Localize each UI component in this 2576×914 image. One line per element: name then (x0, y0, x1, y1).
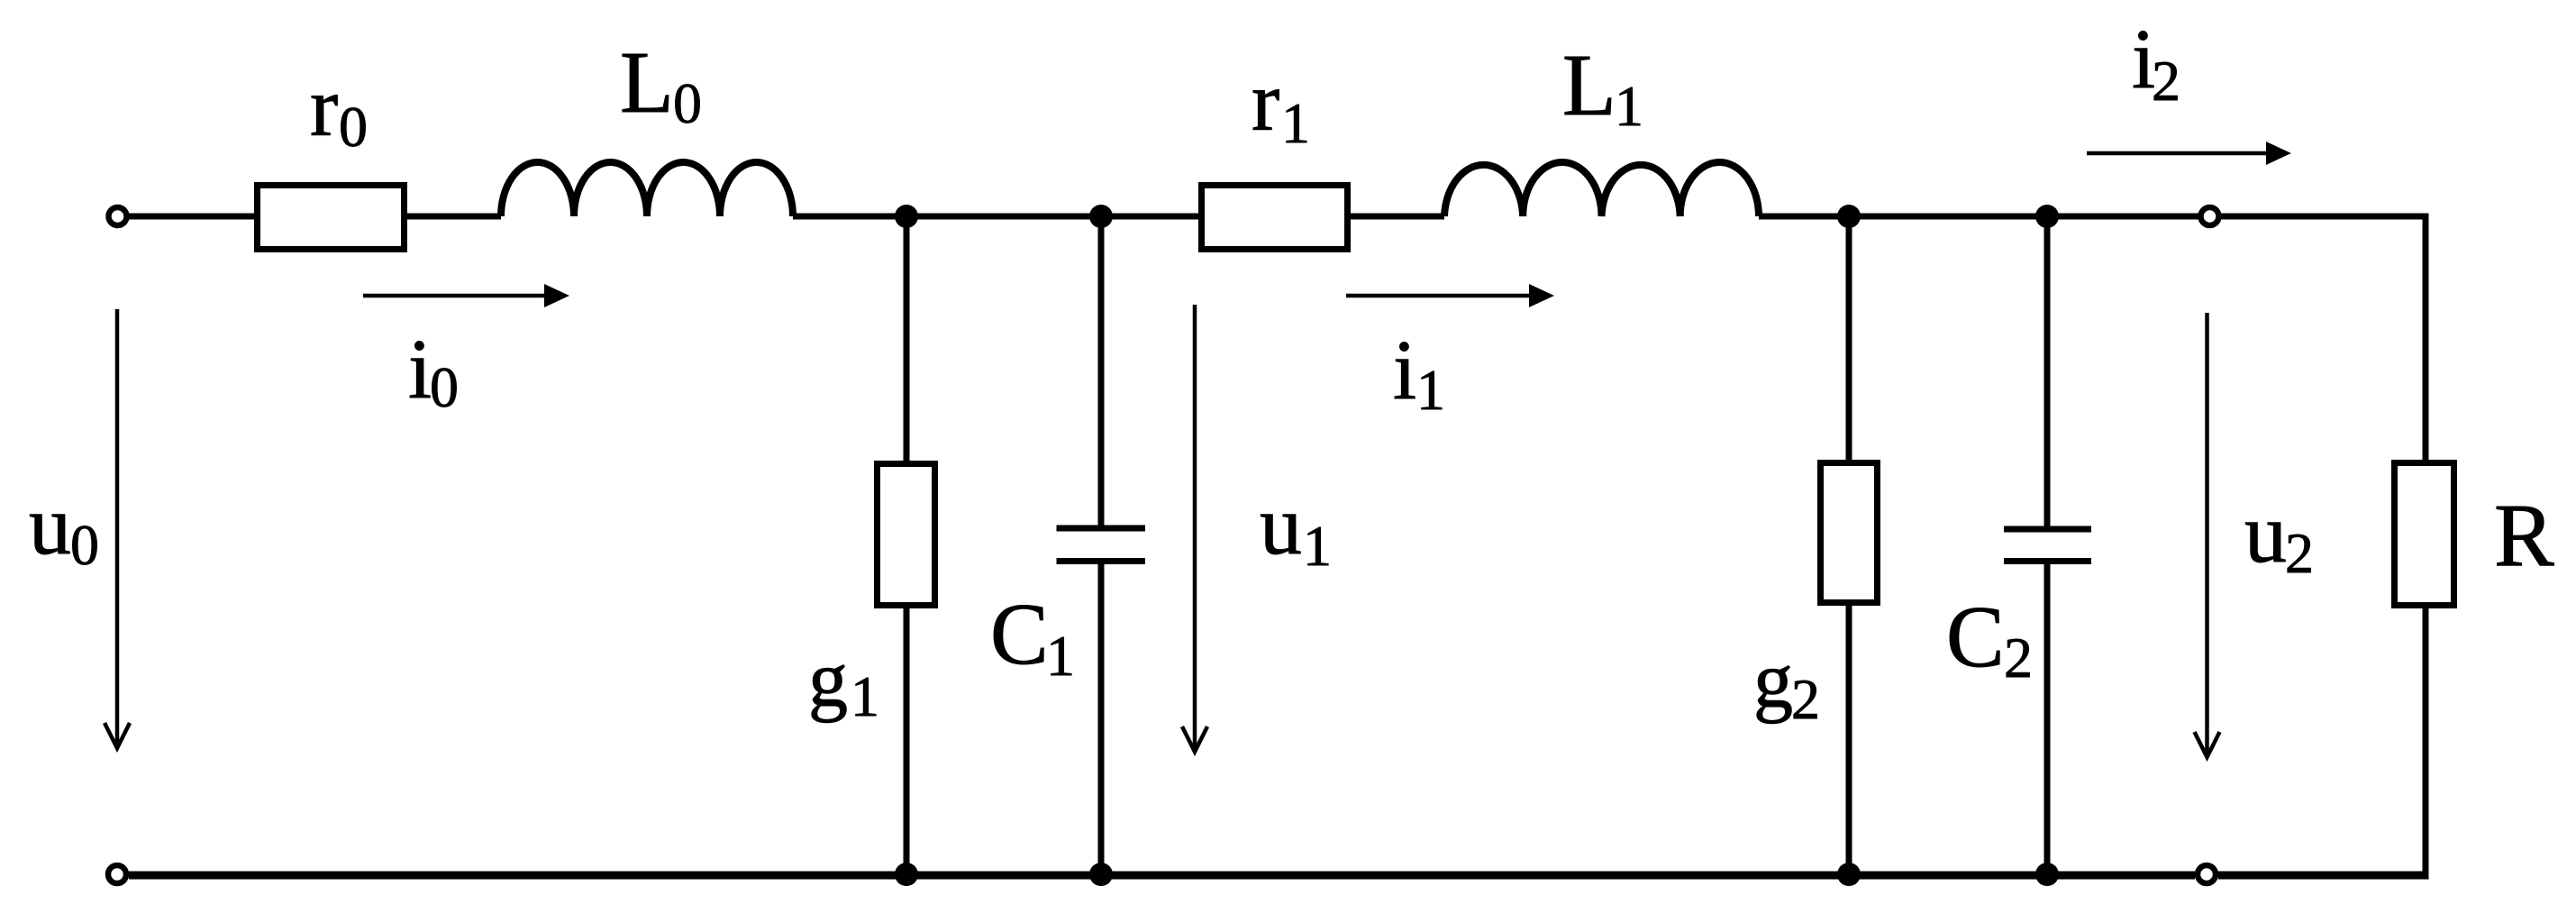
svg-text:0: 0 (339, 95, 368, 159)
capacitor C1 top plate (1057, 526, 1146, 532)
wire g1 branch upper (904, 216, 910, 463)
resistor g1 (878, 464, 935, 606)
wire g1 branch lower (904, 608, 910, 874)
resistor r1 (1202, 186, 1348, 250)
svg-text:C: C (990, 586, 1049, 682)
arrow i2 (2087, 151, 2268, 156)
wire C2 branch lower (2044, 562, 2051, 875)
terminal bottom-right (2198, 865, 2216, 883)
svg-text:2: 2 (2004, 626, 2033, 690)
node B (C1 top junction) (1089, 205, 1113, 228)
wire g2 branch upper (1846, 216, 1852, 462)
svg-text:u: u (29, 479, 71, 572)
resistor r0 (258, 186, 405, 250)
wire L0 to r1 (through nodes A and B) (793, 214, 1198, 220)
terminal top-left (109, 207, 127, 225)
wire R to bottom-right corner (2423, 608, 2429, 878)
svg-text:0: 0 (673, 71, 702, 135)
svg-text:i: i (408, 323, 432, 416)
svg-text:2: 2 (1791, 667, 1820, 731)
svg-text:1: 1 (1281, 91, 1310, 155)
wire terminal to top-right corner (2222, 214, 2429, 220)
capacitor C2 top plate (2004, 526, 2091, 533)
svg-text:g: g (808, 636, 848, 724)
svg-text:R: R (2494, 485, 2554, 585)
svg-text:1: 1 (851, 664, 879, 728)
svg-text:u: u (2244, 487, 2287, 580)
svg-text:L: L (620, 34, 674, 132)
arrow u1 (1193, 305, 1197, 750)
wire C1 branch lower (1098, 562, 1105, 875)
inductor L0 (501, 162, 793, 216)
node D (C2 top junction) (2035, 205, 2059, 228)
node A (g1 top junction) (895, 205, 918, 228)
svg-text:r: r (1252, 55, 1279, 149)
svg-text:C: C (1946, 589, 2005, 685)
node F (C1 bottom junction) (1089, 863, 1113, 886)
wire C2 branch upper (2044, 216, 2051, 529)
wire g2 branch lower (1846, 606, 1852, 874)
svg-text:0: 0 (70, 513, 99, 577)
terminal bottom-left (108, 865, 126, 883)
svg-text:i: i (1393, 324, 1416, 417)
arrow u2 (2205, 313, 2209, 755)
resistor g2 (1821, 463, 1878, 603)
terminal top-right (2201, 207, 2219, 225)
wire bottom rail right (2218, 872, 2429, 880)
svg-text:u: u (1260, 479, 1302, 572)
capacitor C2 bottom plate (2004, 558, 2091, 564)
wire top rail: terminal to r0 (129, 214, 257, 220)
wire C1 branch upper (1098, 216, 1105, 528)
node G (g2 bottom junction) (1837, 863, 1861, 886)
wire L1 to top-right terminal (through nodes C and D) (1759, 214, 2198, 220)
svg-text:L: L (1562, 37, 1616, 134)
capacitor C1 bottom plate (1057, 558, 1146, 564)
node C (g2 top junction) (1837, 205, 1861, 228)
inductor L1 (1444, 162, 1759, 216)
svg-text:r: r (310, 60, 338, 154)
arrow u0 (115, 309, 120, 746)
arrow i1 (1346, 294, 1531, 298)
wire right side down to R (2423, 214, 2429, 463)
resistor R (2395, 463, 2454, 606)
svg-text:g: g (1753, 637, 1793, 725)
svg-text:2: 2 (2152, 49, 2180, 113)
wire bottom rail left (129, 872, 2195, 880)
node H (C2 bottom junction) (2035, 863, 2059, 886)
svg-text:1: 1 (1046, 624, 1075, 688)
wire r1 to L1 (1351, 214, 1444, 220)
svg-text:1: 1 (1416, 358, 1445, 422)
arrow i0 (363, 294, 546, 298)
svg-text:1: 1 (1303, 514, 1332, 578)
svg-text:1: 1 (1615, 74, 1643, 138)
node E (g1 bottom junction) (895, 863, 918, 886)
svg-text:0: 0 (430, 355, 459, 419)
svg-text:2: 2 (2285, 521, 2314, 585)
wire r0 to L0 (407, 214, 501, 220)
